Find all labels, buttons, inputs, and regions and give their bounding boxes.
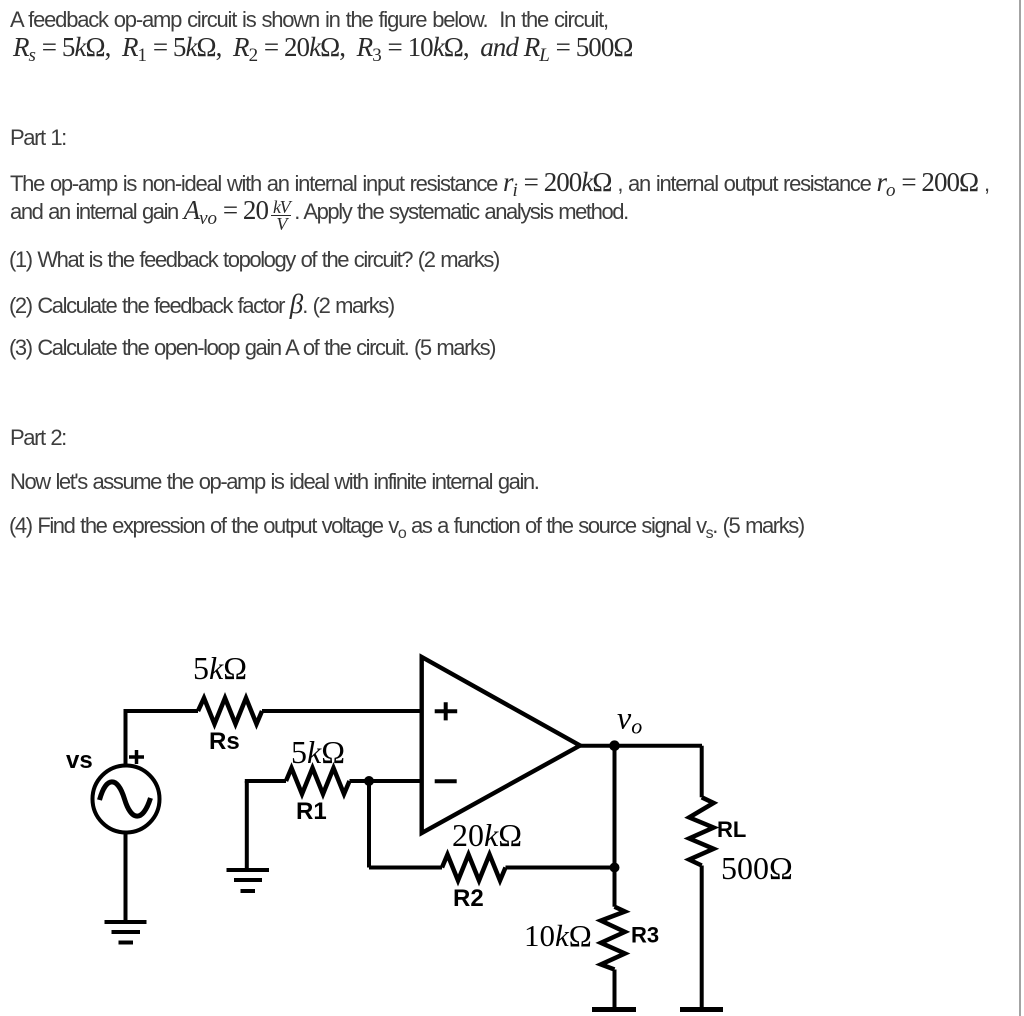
- question 2: [9, 293, 394, 317]
- svg-text:5kΩ: 5kΩ: [291, 734, 345, 770]
- sine wave inside source: [100, 782, 151, 816]
- ground below source: [105, 922, 147, 943]
- svg-text:Rs: Rs: [209, 728, 240, 755]
- svg-text:20kΩ: 20kΩ: [452, 817, 522, 853]
- svg-text:5kΩ: 5kΩ: [193, 650, 247, 686]
- resistor R3: [601, 907, 625, 970]
- plus polarity mark: [129, 750, 144, 764]
- svg-text:vs: vs: [66, 747, 93, 774]
- resistor R2: [442, 855, 506, 881]
- svg-text:RL: RL: [717, 817, 746, 842]
- Part 1 heading: [10, 127, 66, 149]
- svg-text:R1: R1: [296, 798, 327, 825]
- Part 2 heading: [10, 427, 66, 449]
- right page rule: [1019, 0, 1021, 1016]
- text line 1: [10, 9, 608, 31]
- svg-text:R3: R3: [631, 923, 659, 948]
- question 1: [9, 249, 499, 271]
- voltage source vs circle: [93, 766, 160, 833]
- resistor RL: [689, 797, 713, 865]
- wire: R2 left lead: [369, 866, 442, 870]
- svg-text:R2: R2: [453, 885, 484, 912]
- wire: R2 right lead: [506, 866, 615, 870]
- wire: source top vertical: [124, 711, 128, 766]
- svg-text:10kΩ: 10kΩ: [524, 918, 592, 953]
- junction node output: [609, 740, 620, 751]
- resistor Rs: [198, 698, 262, 724]
- text line 2 math: [13, 36, 633, 62]
- paragraph line 1: [10, 171, 989, 197]
- svg-text:500Ω: 500Ω: [721, 850, 793, 886]
- junction node R2 right: [610, 863, 620, 873]
- wire: RL bottom lead: [700, 866, 704, 1009]
- question 3: [9, 337, 495, 359]
- wire: R1 left lead: [245, 779, 286, 783]
- resistor R1: [286, 768, 350, 794]
- wire: top horizontal left lead to Rs: [124, 709, 199, 713]
- wire: source bottom: [124, 832, 128, 921]
- ground bar below R3: [592, 1007, 636, 1012]
- junction node at minus input: [364, 776, 374, 786]
- paragraph line 2: [10, 199, 628, 232]
- wire: op-amp output: [580, 744, 702, 748]
- wire: output node down to R2 node: [613, 746, 617, 868]
- ground below R1: [227, 870, 270, 891]
- wire: feedback vertical from junction: [367, 781, 371, 868]
- svg-text:vo: vo: [617, 700, 642, 739]
- minus input mark: [435, 779, 457, 783]
- wire: Rs to op-amp plus input: [262, 709, 422, 713]
- part2 line: [10, 471, 538, 493]
- op-amp triangle: [422, 657, 580, 833]
- question 4: [9, 515, 804, 540]
- wire: R1 left vertical: [245, 781, 249, 868]
- wire: R3 bottom lead: [613, 970, 617, 1009]
- wire: RL top vertical: [700, 746, 704, 798]
- wire: R1 to junction and op-amp minus input: [350, 779, 423, 783]
- wire: R3 top lead: [613, 868, 617, 907]
- plus input mark: [435, 702, 458, 720]
- ground bar below RL: [680, 1007, 723, 1012]
